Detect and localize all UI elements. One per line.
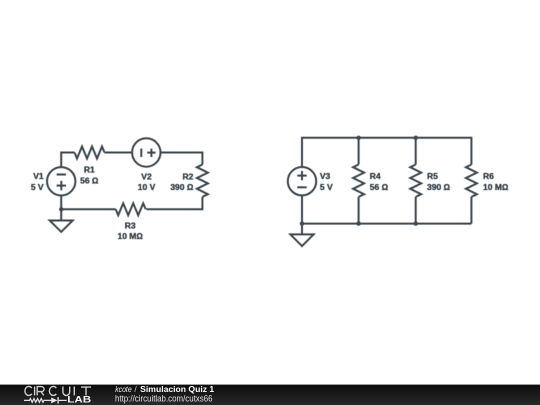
wire V1 top to R1 corner (61, 153, 74, 168)
voltage source V1 (47, 167, 75, 195)
svg-text:5 V: 5 V (320, 182, 333, 192)
node R4 bottom (356, 221, 360, 225)
resistor R3 (116, 203, 146, 215)
label R1 (80, 165, 99, 186)
svg-text:5 V: 5 V (31, 182, 44, 192)
svg-text:R5: R5 (427, 171, 438, 181)
label V2 (138, 172, 156, 193)
footer bar (0, 385, 540, 405)
resistor R5 (410, 138, 421, 224)
logo CIRCUIT lettering (25, 386, 91, 395)
wire V3 bottom to ground (301, 195, 303, 234)
wire V1 bottom to ground (60, 196, 62, 221)
voltage source V3 (288, 167, 316, 195)
wire R3 to junction (61, 208, 115, 210)
resistor R6 (466, 165, 477, 224)
svg-text:390 Ω: 390 Ω (427, 182, 451, 192)
node junction left (59, 207, 63, 211)
label R5 (427, 171, 451, 192)
ground left (50, 221, 73, 232)
ground right (290, 234, 313, 246)
resistor R1 (75, 147, 105, 159)
svg-text:R6: R6 (483, 171, 494, 181)
node R5 bottom (414, 221, 418, 225)
wire V2 to R2 top (161, 153, 203, 165)
wire R2 bottom to rail (146, 197, 202, 209)
svg-text:R1: R1 (84, 165, 95, 175)
svg-text:Simulacion Quiz 1: Simulacion Quiz 1 (140, 384, 214, 394)
svg-text:10 V: 10 V (138, 182, 156, 192)
resistor R2 (197, 165, 208, 197)
logo diode (51, 397, 66, 403)
voltage source V2 (132, 138, 160, 166)
resistor R4 (353, 138, 364, 224)
label V1 (31, 171, 44, 192)
node R4 top (356, 136, 360, 140)
node V3 bottom (300, 221, 304, 225)
svg-text:56 Ω: 56 Ω (80, 175, 99, 185)
label V3 (320, 171, 333, 192)
svg-text:kcote: kcote (115, 384, 132, 394)
svg-text:R2: R2 (183, 172, 194, 182)
label R6 (483, 171, 509, 192)
svg-text:10 MΩ: 10 MΩ (117, 231, 143, 241)
svg-text:http://circuitlab.com/cutxs66: http://circuitlab.com/cutxs66 (115, 393, 213, 404)
svg-text:10 MΩ: 10 MΩ (483, 182, 509, 192)
svg-text:LAB: LAB (67, 394, 91, 404)
svg-text:390 Ω: 390 Ω (170, 182, 194, 192)
svg-text:V3: V3 (320, 171, 331, 181)
logo resistor squiggle (24, 399, 51, 403)
svg-text:V2: V2 (141, 172, 152, 182)
wire top rail right circuit (302, 138, 471, 167)
svg-text:R3: R3 (125, 220, 136, 230)
svg-text:V1: V1 (33, 171, 44, 181)
label R4 (370, 171, 389, 192)
svg-text:56 Ω: 56 Ω (370, 182, 389, 192)
label R2 (170, 172, 194, 193)
wire bottom rail right circuit (302, 223, 471, 225)
svg-text:R4: R4 (370, 171, 381, 181)
wire R1 to V2 (105, 152, 133, 154)
node R5 top (414, 136, 418, 140)
label R3 (117, 220, 143, 241)
